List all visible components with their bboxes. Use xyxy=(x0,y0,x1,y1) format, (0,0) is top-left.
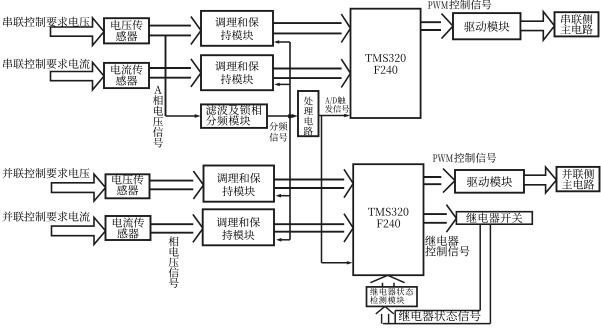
chevron arrow into U4 from A3 xyxy=(344,169,353,197)
label 相电压信号 vertical xyxy=(169,236,179,287)
wire pair U2 to conditioner A2 xyxy=(149,68,191,78)
node junction divided-signal xyxy=(288,114,293,119)
wire phase-voltage vertical tap xyxy=(165,35,167,116)
block arrow into voltage sensor U5 xyxy=(52,174,106,201)
box voltage sensor U5 电压传感器 xyxy=(106,174,150,198)
box filter-PLL 滤波及锁相分频模块 xyxy=(201,104,267,128)
wire divided-signal vertical bus xyxy=(289,42,291,240)
wire A/D trigger to U3 xyxy=(319,115,346,117)
wire feedback into A1 xyxy=(274,40,290,44)
label 分频信号 xyxy=(269,122,287,142)
box voltage sensor U1 电压传感器 xyxy=(104,18,149,43)
wire pair PWM U4 to driver A6 xyxy=(424,177,442,184)
wire relay status outer xyxy=(383,224,491,323)
block arrow driver A6 to parallel main circuit xyxy=(524,167,556,193)
wire pair relay control U4 to relay switch xyxy=(424,214,447,223)
label parallel-current-demand 并联控制要求电流 xyxy=(2,211,89,221)
box DSP U4 TMS320F240 xyxy=(353,164,423,275)
wire pair U5 to conditioner A3 xyxy=(150,181,194,190)
box series main circuit 串联侧主电路 xyxy=(555,12,599,36)
label 继电器控制信号 xyxy=(425,235,469,256)
label parallel-voltage-demand 并联控制要求电压 xyxy=(2,168,89,178)
box conditioner A3 调理和保持模块 xyxy=(204,166,275,202)
chevron arrow into A2 xyxy=(191,59,201,87)
box processing circuit 处理电路 xyxy=(298,91,319,136)
box conditioner A2 调理和保持模块 xyxy=(201,55,273,90)
box conditioner A4 调理和保持模块 xyxy=(203,209,274,245)
box driver A6 驱动模块 xyxy=(455,170,524,193)
wire filter-PLL to processing circuit xyxy=(267,115,293,117)
chevron arrow into driver A5 xyxy=(442,14,454,39)
wire feedback into A4 xyxy=(276,238,290,242)
chevron arrow into relay switch xyxy=(446,205,456,233)
box current sensor U6 电流传感器 xyxy=(106,216,151,240)
label 继电器状态信号 xyxy=(399,310,481,321)
label PWM控制信号 bottom xyxy=(433,153,496,163)
box current sensor U2 电流传感器 xyxy=(104,63,149,88)
wire feedback into A3 xyxy=(276,194,290,198)
wire A/D trigger branch down xyxy=(322,116,349,263)
block arrow into current sensor U6 xyxy=(52,217,106,244)
box parallel main circuit 并联侧主电路 xyxy=(557,167,600,191)
chevron arrow into U4 from A4 xyxy=(344,214,353,242)
box relay detection module 继电器状态检测模块 xyxy=(367,287,418,307)
hollow arrow into detection module xyxy=(376,306,394,323)
wire relay status inner xyxy=(395,224,480,323)
wire pair A4 to TMS320 U4 xyxy=(274,224,344,232)
box conditioner A1 调理和保持模块 xyxy=(201,11,273,46)
block arrow into current sensor U2 xyxy=(51,62,105,90)
block arrow driver A5 to series main circuit xyxy=(521,12,555,41)
chevron arrow into driver A6 xyxy=(443,169,455,193)
arrowhead A/D into U4 xyxy=(347,261,353,264)
chevron arrow into A3 xyxy=(193,171,203,199)
box DSP U3 TMS320F240 xyxy=(351,9,421,118)
chevron arrow into A4 xyxy=(193,214,203,242)
chevron arrow into U3 from A2 xyxy=(341,59,350,87)
box relay switch 继电器开关 xyxy=(456,212,532,225)
box driver A5 驱动模块 xyxy=(453,13,521,39)
wire pair U1 to conditioner A1 xyxy=(149,26,191,36)
block arrow into voltage sensor U1 xyxy=(51,18,105,46)
wire pair A3 to TMS320 U4 xyxy=(274,180,344,189)
hollow arrow detection module into U4 xyxy=(370,275,404,287)
label A相电压信号 vertical xyxy=(153,86,163,148)
chevron arrow into U3 from A1 xyxy=(341,14,350,42)
wire pair U6 to conditioner A4 xyxy=(151,224,194,233)
arrowhead into filter-PLL xyxy=(195,114,201,118)
wire feedback into A2 xyxy=(274,83,290,87)
label series-voltage-demand 串联控制要求电压 xyxy=(3,17,89,27)
label PWM控制信号 top xyxy=(428,0,491,9)
wire into filter-PLL module xyxy=(166,115,196,117)
label series-current-demand 串联控制要求电流 xyxy=(3,59,89,69)
label A/D触发信号 xyxy=(325,96,349,112)
arrowhead into processing circuit xyxy=(292,114,298,118)
chevron arrow into A1 xyxy=(191,17,201,45)
wire pair A2 to TMS320 U3 xyxy=(273,69,342,79)
arrowhead A/D into U3 xyxy=(344,114,350,117)
wire pair A1 to TMS320 U3 xyxy=(273,23,342,33)
wire pair PWM U3 to driver A5 xyxy=(421,22,441,30)
